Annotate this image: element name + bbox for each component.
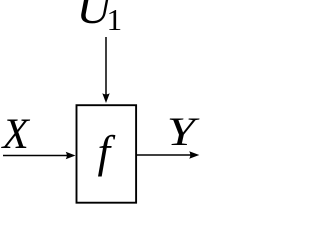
arrowhead right (output) <box>189 151 199 159</box>
svg-text:1: 1 <box>107 2 123 37</box>
block f <box>77 105 137 203</box>
svg-text:f: f <box>98 126 116 177</box>
wire U1 to block f (vertical) <box>105 37 107 96</box>
wire block f to Y (right arrow) <box>137 154 192 156</box>
wire X to block f (left arrow) <box>3 155 69 157</box>
arrowhead right (input to block) <box>66 152 76 159</box>
svg-text:X: X <box>1 111 31 158</box>
arrowhead down (into block) <box>102 93 109 103</box>
svg-text:Y: Y <box>167 109 200 154</box>
